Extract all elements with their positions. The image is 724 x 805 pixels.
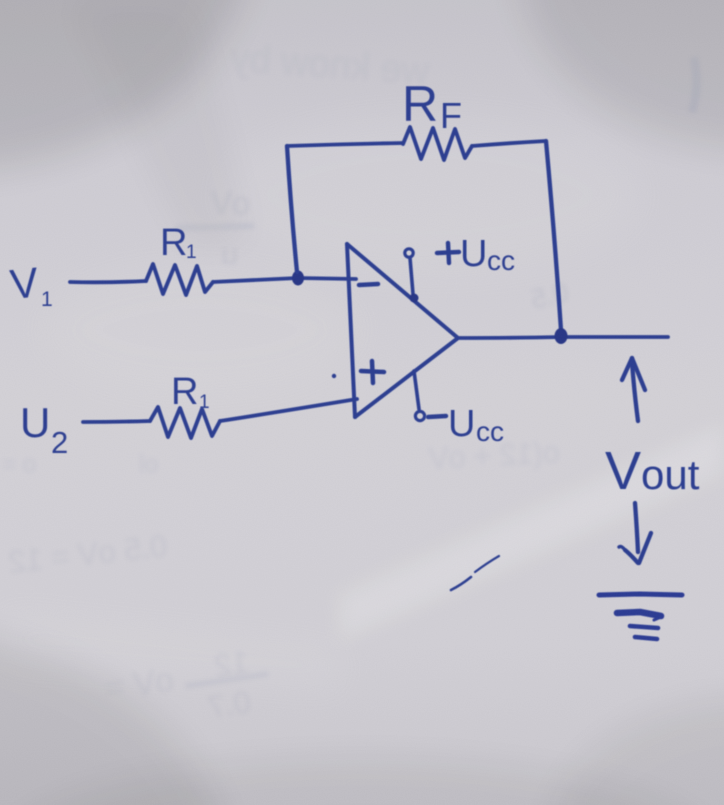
label -Ucc xyxy=(428,403,504,447)
stray ink dot xyxy=(332,374,336,378)
resistor R1 (top) xyxy=(146,264,213,295)
paper grain xyxy=(0,0,1,1)
wire: R1 to non-inverting input xyxy=(220,399,357,421)
wire: feedback top right segment xyxy=(472,141,546,146)
label V1 xyxy=(8,258,53,311)
label V2 xyxy=(20,399,68,460)
stray pen mark xyxy=(451,556,499,590)
wire: R1 to inverting input xyxy=(213,278,356,282)
wire: V1 lead xyxy=(70,281,146,282)
-Vcc pin U1 xyxy=(414,371,425,421)
resistor R1 (bottom) xyxy=(150,407,220,438)
ground xyxy=(599,594,682,639)
node A: inverting input junction xyxy=(292,271,304,286)
wire: output xyxy=(458,337,668,338)
op-amp U1 xyxy=(347,244,458,417)
wire: feedback left vertical xyxy=(287,146,297,272)
handwritten labels xyxy=(8,76,700,501)
label Vout xyxy=(605,441,700,501)
wire: feedback top left segment xyxy=(287,143,403,146)
label R1 (top) xyxy=(160,222,197,264)
wire: feedback right vertical xyxy=(546,141,561,330)
node B: output junction xyxy=(555,328,568,344)
label +Ucc xyxy=(437,233,515,276)
wire: V2 lead xyxy=(83,421,150,422)
+Vcc pin U1 xyxy=(405,249,419,303)
arrow down (Vout polarity -) xyxy=(619,503,651,563)
label R1 (bottom) xyxy=(171,371,210,413)
resistor RF xyxy=(403,127,472,160)
label RF xyxy=(402,76,462,136)
arrow up (Vout polarity +) xyxy=(622,358,645,421)
